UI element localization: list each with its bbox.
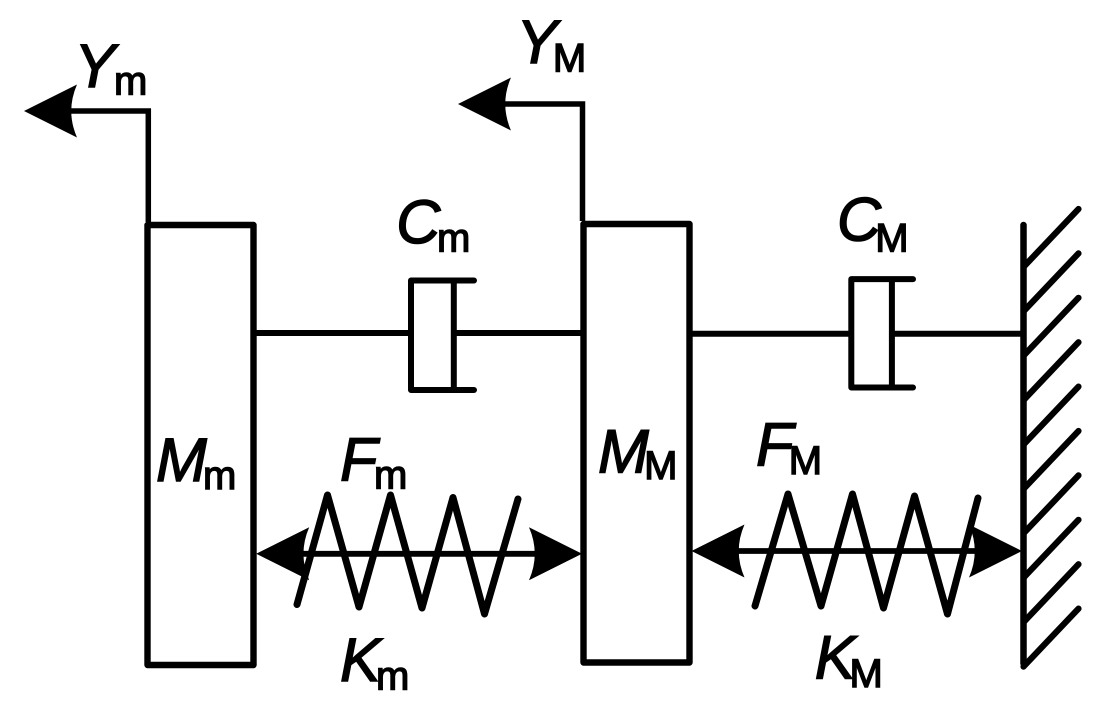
label YM — [517, 8, 587, 80]
svg-text:m: m — [114, 60, 147, 104]
label MM — [598, 417, 677, 488]
svg-text:M: M — [156, 426, 207, 494]
svg-text:m: m — [203, 454, 236, 498]
label Fm — [340, 426, 407, 498]
svg-text:M: M — [644, 444, 677, 488]
svg-text:M: M — [850, 652, 883, 696]
svg-text:M: M — [553, 37, 586, 81]
label CM — [837, 186, 909, 261]
label Ym — [75, 32, 148, 104]
label Km — [340, 626, 409, 698]
svg-text:M: M — [789, 439, 822, 483]
damper CM — [689, 279, 1023, 387]
label FM — [756, 411, 822, 484]
wall fixed support line — [1020, 225, 1027, 664]
wire Ym displacement arrow — [24, 85, 148, 223]
svg-text:M: M — [598, 417, 649, 485]
label Mm — [156, 426, 236, 498]
spring KM zigzag — [755, 494, 978, 614]
svg-text:m: m — [437, 217, 470, 261]
spring Km zigzag — [297, 495, 518, 614]
wire YM displacement arrow — [458, 78, 583, 222]
svg-text:Y: Y — [75, 32, 120, 100]
svg-text:C: C — [396, 188, 441, 256]
wall hatching — [1024, 209, 1079, 667]
mass Mm rectangle — [148, 225, 254, 665]
mass MM rectangle — [584, 224, 690, 663]
force Fm double arrow — [256, 527, 582, 580]
label KM — [815, 623, 883, 696]
force FM double arrow — [692, 525, 1023, 578]
damper Cm — [253, 281, 583, 391]
svg-text:m: m — [376, 655, 409, 699]
label Cm — [396, 188, 470, 260]
svg-text:m: m — [374, 453, 407, 497]
svg-text:M: M — [875, 217, 908, 261]
